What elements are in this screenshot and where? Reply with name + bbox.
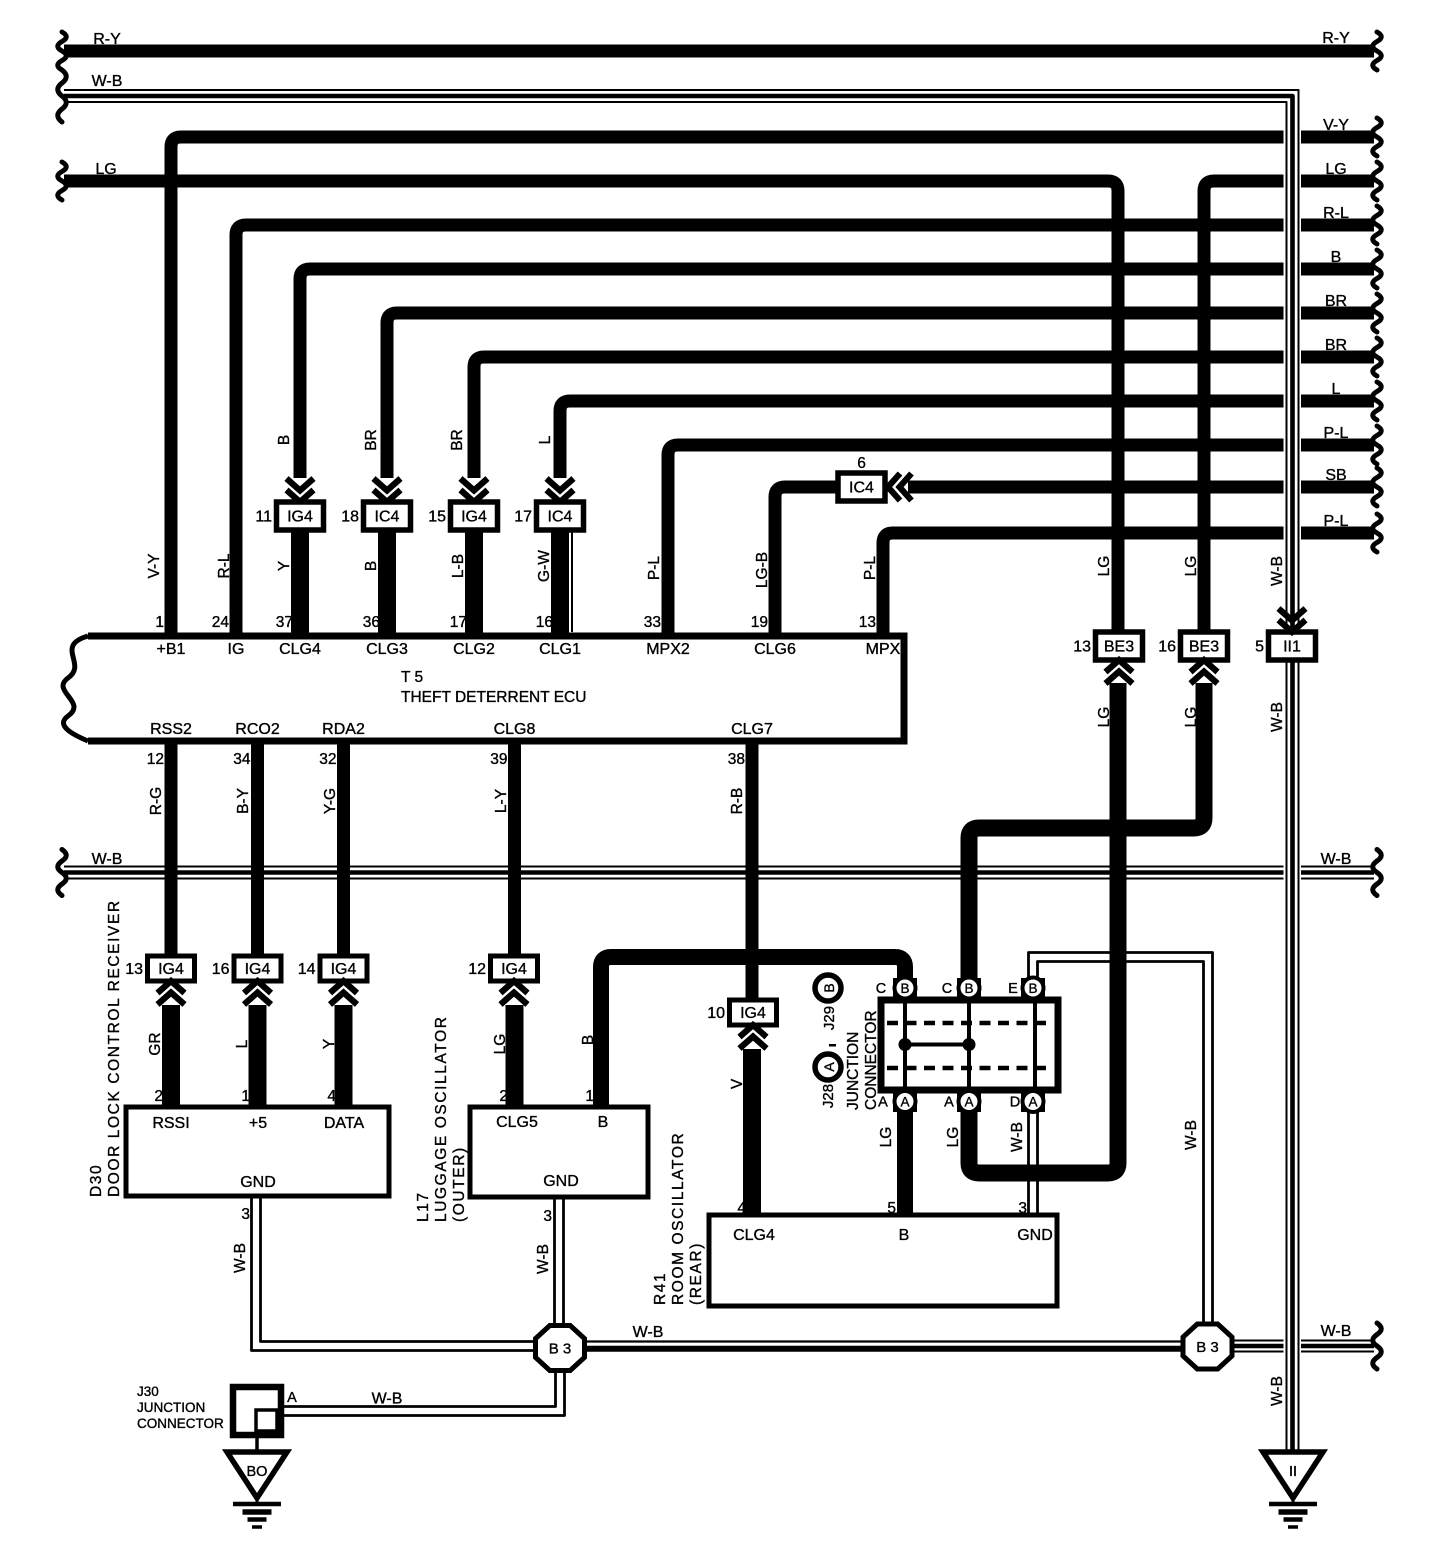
svg-text:19: 19	[751, 614, 768, 631]
svg-text:1: 1	[585, 1088, 594, 1105]
svg-text:IG4: IG4	[245, 961, 271, 978]
svg-text:RSSI: RSSI	[152, 1115, 189, 1132]
svg-text:B-Y: B-Y	[235, 788, 252, 814]
svg-text:W-B: W-B	[232, 1243, 249, 1273]
svg-text:W-B: W-B	[92, 851, 123, 868]
svg-text:12: 12	[468, 961, 486, 978]
svg-text:16: 16	[1158, 639, 1176, 656]
svg-text:CONNECTOR: CONNECTOR	[137, 1416, 224, 1431]
svg-text:RDA2: RDA2	[322, 721, 365, 738]
svg-text:14: 14	[298, 961, 316, 978]
svg-text:BE3: BE3	[1104, 639, 1134, 656]
svg-text:II: II	[1289, 1464, 1297, 1480]
svg-text:R-Y: R-Y	[93, 31, 121, 48]
svg-text:A: A	[287, 1390, 297, 1406]
svg-text:C: C	[876, 981, 886, 997]
svg-text:LG: LG	[492, 1034, 509, 1055]
svg-text:B: B	[598, 1114, 609, 1131]
svg-text:LG: LG	[1096, 556, 1113, 577]
svg-text:MPX2: MPX2	[646, 641, 690, 658]
svg-text:BR: BR	[449, 429, 466, 451]
svg-text:3: 3	[241, 1206, 250, 1223]
svg-text:R-L: R-L	[216, 553, 233, 578]
svg-text:1: 1	[155, 614, 164, 631]
svg-text:11: 11	[255, 509, 272, 526]
svg-text:LG: LG	[1183, 707, 1200, 728]
svg-text:RSS2: RSS2	[150, 721, 192, 738]
svg-text:THEFT DETERRENT ECU: THEFT DETERRENT ECU	[401, 689, 586, 706]
svg-text:GND: GND	[543, 1173, 579, 1190]
svg-text:A: A	[944, 1095, 954, 1111]
svg-text:CLG1: CLG1	[539, 641, 581, 658]
svg-text:IC4: IC4	[375, 509, 400, 526]
svg-text:39: 39	[490, 751, 507, 768]
svg-text:P-L: P-L	[1324, 425, 1349, 442]
svg-text:V-Y: V-Y	[146, 554, 163, 579]
svg-text:Y: Y	[276, 561, 293, 571]
svg-text:A: A	[964, 1095, 973, 1110]
svg-text:R-Y: R-Y	[1322, 30, 1350, 47]
svg-text:13: 13	[125, 961, 143, 978]
svg-text:1: 1	[241, 1088, 250, 1105]
svg-text:BR: BR	[1325, 337, 1347, 354]
svg-text:W-B: W-B	[1009, 1122, 1026, 1152]
svg-text:38: 38	[728, 751, 745, 768]
svg-text:15: 15	[428, 509, 446, 526]
svg-text:LG-B: LG-B	[754, 552, 771, 588]
svg-text:12: 12	[147, 751, 164, 768]
svg-text:24: 24	[212, 614, 230, 631]
svg-text:5: 5	[887, 1200, 896, 1217]
svg-text:L: L	[234, 1039, 251, 1048]
svg-text:2: 2	[499, 1088, 508, 1105]
svg-text:LG: LG	[95, 161, 116, 178]
svg-text:(OUTER): (OUTER)	[451, 1146, 468, 1222]
svg-text:R41: R41	[652, 1272, 669, 1305]
svg-text:37: 37	[276, 614, 293, 631]
svg-text:IG4: IG4	[331, 961, 357, 978]
svg-text:E: E	[1008, 981, 1018, 997]
svg-text:C: C	[942, 981, 952, 997]
svg-text:W-B: W-B	[1269, 1376, 1286, 1406]
svg-text:BR: BR	[1325, 293, 1347, 310]
svg-text:B 3: B 3	[1196, 1339, 1219, 1356]
svg-text:B: B	[276, 435, 293, 445]
svg-text:B: B	[899, 1227, 910, 1244]
svg-text:LG: LG	[945, 1127, 962, 1148]
svg-text:32: 32	[319, 751, 336, 768]
svg-text:A: A	[821, 1062, 837, 1072]
svg-text:IG4: IG4	[461, 509, 487, 526]
svg-text:W-B: W-B	[633, 1324, 664, 1341]
svg-text:10: 10	[707, 1005, 725, 1022]
svg-text:W-B: W-B	[372, 1391, 403, 1408]
svg-text:W-B: W-B	[1183, 1120, 1200, 1150]
svg-text:B: B	[821, 983, 837, 992]
svg-text:18: 18	[341, 509, 359, 526]
svg-text:II1: II1	[1283, 639, 1301, 656]
svg-text:+5: +5	[249, 1115, 267, 1132]
svg-text:Y: Y	[321, 1039, 338, 1049]
svg-text:Y-G: Y-G	[322, 788, 339, 814]
svg-text:RCO2: RCO2	[235, 721, 280, 738]
svg-text:L: L	[537, 435, 554, 444]
svg-text:W-B: W-B	[92, 73, 123, 90]
svg-text:CLG3: CLG3	[366, 641, 408, 658]
svg-text:(REAR): (REAR)	[688, 1242, 705, 1305]
svg-text:LUGGAGE OSCILLATOR: LUGGAGE OSCILLATOR	[433, 1015, 450, 1222]
svg-text:ROOM OSCILLATOR: ROOM OSCILLATOR	[670, 1132, 687, 1305]
svg-text:W-B: W-B	[1269, 702, 1286, 732]
svg-text:5: 5	[1255, 639, 1264, 656]
svg-text:A: A	[1028, 1095, 1037, 1110]
svg-text:L17: L17	[415, 1191, 432, 1222]
svg-text:W-B: W-B	[1321, 851, 1352, 868]
svg-text:BE3: BE3	[1189, 639, 1219, 656]
svg-text:BR: BR	[363, 429, 380, 451]
svg-text:CLG4: CLG4	[279, 641, 321, 658]
svg-text:13: 13	[1073, 639, 1091, 656]
svg-text:BO: BO	[247, 1464, 268, 1480]
svg-text:LG: LG	[1183, 556, 1200, 577]
svg-text:33: 33	[644, 614, 661, 631]
svg-text:B: B	[580, 1035, 597, 1045]
svg-text:6: 6	[857, 455, 866, 472]
svg-text:CLG7: CLG7	[731, 721, 773, 738]
svg-text:LG: LG	[1325, 161, 1346, 178]
svg-text:IG4: IG4	[501, 961, 527, 978]
svg-text:DOOR LOCK CONTROL RECEIVER: DOOR LOCK CONTROL RECEIVER	[106, 899, 123, 1197]
svg-text:17: 17	[514, 509, 532, 526]
svg-text:R-L: R-L	[1323, 205, 1349, 222]
svg-text:IG: IG	[228, 641, 245, 658]
svg-text:J30: J30	[137, 1384, 159, 1399]
svg-text:A: A	[900, 1095, 909, 1110]
svg-text:IG4: IG4	[740, 1005, 766, 1022]
svg-text:W-B: W-B	[1321, 1323, 1352, 1340]
svg-text:P-L: P-L	[1324, 513, 1349, 530]
svg-text:R-B: R-B	[729, 788, 746, 815]
svg-text:+B1: +B1	[157, 641, 186, 658]
svg-text:CLG8: CLG8	[494, 721, 536, 738]
svg-text:B: B	[363, 561, 380, 571]
svg-text:CLG6: CLG6	[754, 641, 796, 658]
svg-text:B: B	[900, 981, 909, 996]
svg-text:CLG4: CLG4	[733, 1227, 775, 1244]
svg-text:J28: J28	[820, 1084, 837, 1108]
svg-text:DATA: DATA	[324, 1115, 365, 1132]
svg-text:17: 17	[450, 614, 467, 631]
svg-text:2: 2	[154, 1088, 163, 1105]
svg-text:W-B: W-B	[535, 1244, 552, 1274]
svg-text:LG: LG	[1096, 707, 1113, 728]
svg-text:4: 4	[327, 1088, 336, 1105]
svg-text:L-B: L-B	[450, 554, 467, 578]
svg-text:IC4: IC4	[849, 480, 874, 497]
svg-text:B: B	[964, 981, 973, 996]
svg-text:V: V	[729, 1078, 746, 1089]
svg-text:MPX: MPX	[866, 641, 901, 658]
svg-text:W-B: W-B	[1269, 556, 1286, 586]
svg-text:16: 16	[536, 614, 553, 631]
svg-text:36: 36	[363, 614, 380, 631]
svg-text:T 5: T 5	[401, 669, 423, 686]
svg-text:L: L	[1332, 381, 1341, 398]
svg-text:JUNCTION: JUNCTION	[137, 1400, 205, 1415]
svg-text:D30: D30	[88, 1164, 105, 1197]
svg-text:4: 4	[737, 1200, 746, 1217]
svg-text:B: B	[1028, 981, 1037, 996]
svg-text:P-L: P-L	[862, 556, 879, 581]
svg-text:P-L: P-L	[646, 556, 663, 581]
svg-text:LG: LG	[878, 1127, 895, 1148]
svg-text:SB: SB	[1325, 467, 1346, 484]
svg-text:3: 3	[1018, 1200, 1027, 1217]
svg-text:L-Y: L-Y	[493, 789, 510, 813]
svg-text:J29: J29	[821, 1006, 838, 1030]
svg-text:GND: GND	[1017, 1227, 1053, 1244]
svg-text:JUNCTION: JUNCTION	[845, 1032, 862, 1110]
svg-text:3: 3	[543, 1208, 552, 1225]
svg-text:CLG2: CLG2	[453, 641, 495, 658]
svg-text:34: 34	[233, 751, 251, 768]
svg-text:13: 13	[859, 614, 876, 631]
svg-text:IG4: IG4	[287, 509, 313, 526]
svg-text:D: D	[1010, 1095, 1020, 1111]
svg-text:16: 16	[212, 961, 230, 978]
svg-text:CLG5: CLG5	[496, 1114, 538, 1131]
svg-text:G-W: G-W	[536, 550, 553, 582]
svg-text:R-G: R-G	[148, 787, 165, 815]
svg-text:GR: GR	[147, 1032, 164, 1055]
svg-text:IC4: IC4	[548, 509, 573, 526]
svg-text:V-Y: V-Y	[1323, 117, 1349, 134]
svg-text:IG4: IG4	[158, 961, 184, 978]
svg-text:GND: GND	[240, 1174, 276, 1191]
svg-text:CONNECTOR: CONNECTOR	[863, 1010, 880, 1110]
svg-text:B 3: B 3	[549, 1341, 572, 1358]
svg-text:B: B	[1331, 249, 1342, 266]
